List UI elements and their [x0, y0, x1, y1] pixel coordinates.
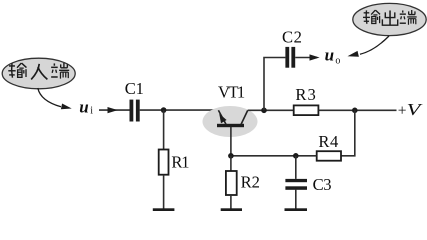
resistor R3 [294, 105, 319, 115]
wire junction to R1 [163, 110, 165, 150]
label +V [398, 100, 424, 119]
wire R1 to ground [163, 175, 165, 209]
svg-text:R4: R4 [318, 132, 339, 151]
resistor R2 [226, 171, 237, 195]
label u_i [79, 97, 93, 116]
svg-text:R3: R3 [295, 85, 316, 104]
svg-text:C3: C3 [313, 175, 332, 194]
node: base/R2 junction [228, 153, 234, 159]
wire collector to R3 [248, 109, 294, 111]
capacitor C3 [285, 179, 307, 190]
wire R3 to +V [318, 109, 396, 111]
ground (R1) [153, 208, 175, 211]
wire collector junction up to C2 [264, 58, 285, 111]
node: R1 tap junction [161, 107, 167, 113]
wire junction to R2 [230, 156, 232, 171]
transistor VT1 highlight ellipse [203, 106, 258, 137]
input callout curved arrow [38, 88, 72, 109]
svg-text:C1: C1 [125, 79, 144, 98]
node: +V junction [352, 108, 358, 114]
svg-text:u: u [325, 45, 334, 64]
svg-text:+: + [398, 102, 407, 119]
wire junction to C3 [295, 156, 297, 179]
svg-text:VT1: VT1 [218, 82, 245, 101]
node: collector junction [261, 108, 267, 114]
svg-text:C2: C2 [282, 28, 303, 47]
base rail wire [231, 155, 317, 157]
wire C1 to transistor emitter [140, 109, 219, 111]
wire C3 to ground [295, 190, 297, 209]
transistor VT1 [217, 110, 248, 155]
svg-text:i: i [90, 106, 93, 117]
ground (C3) [285, 208, 308, 211]
output terminal text 输出端 [363, 10, 417, 25]
capacitor C2 [285, 47, 295, 68]
resistor R4 [317, 151, 341, 161]
svg-text:R1: R1 [171, 152, 189, 171]
output signal arrow after C2 [295, 54, 319, 60]
node: C3/R4 junction [293, 153, 299, 159]
wire R2 to ground [230, 195, 232, 209]
output callout curved arrow [348, 36, 390, 57]
wire +V junction down to R4 [341, 110, 355, 156]
input terminal text 输入端 [8, 63, 69, 79]
output terminal callout ellipse [353, 3, 426, 35]
label u_o [325, 45, 341, 66]
capacitor C1 [130, 100, 140, 122]
svg-text:R2: R2 [241, 173, 260, 192]
ground (R2) [221, 208, 242, 211]
input signal arrow into C1 [99, 107, 130, 113]
input terminal callout ellipse [2, 58, 75, 89]
svg-text:o: o [335, 55, 340, 66]
resistor R1 [159, 150, 169, 175]
svg-text:u: u [79, 97, 88, 116]
